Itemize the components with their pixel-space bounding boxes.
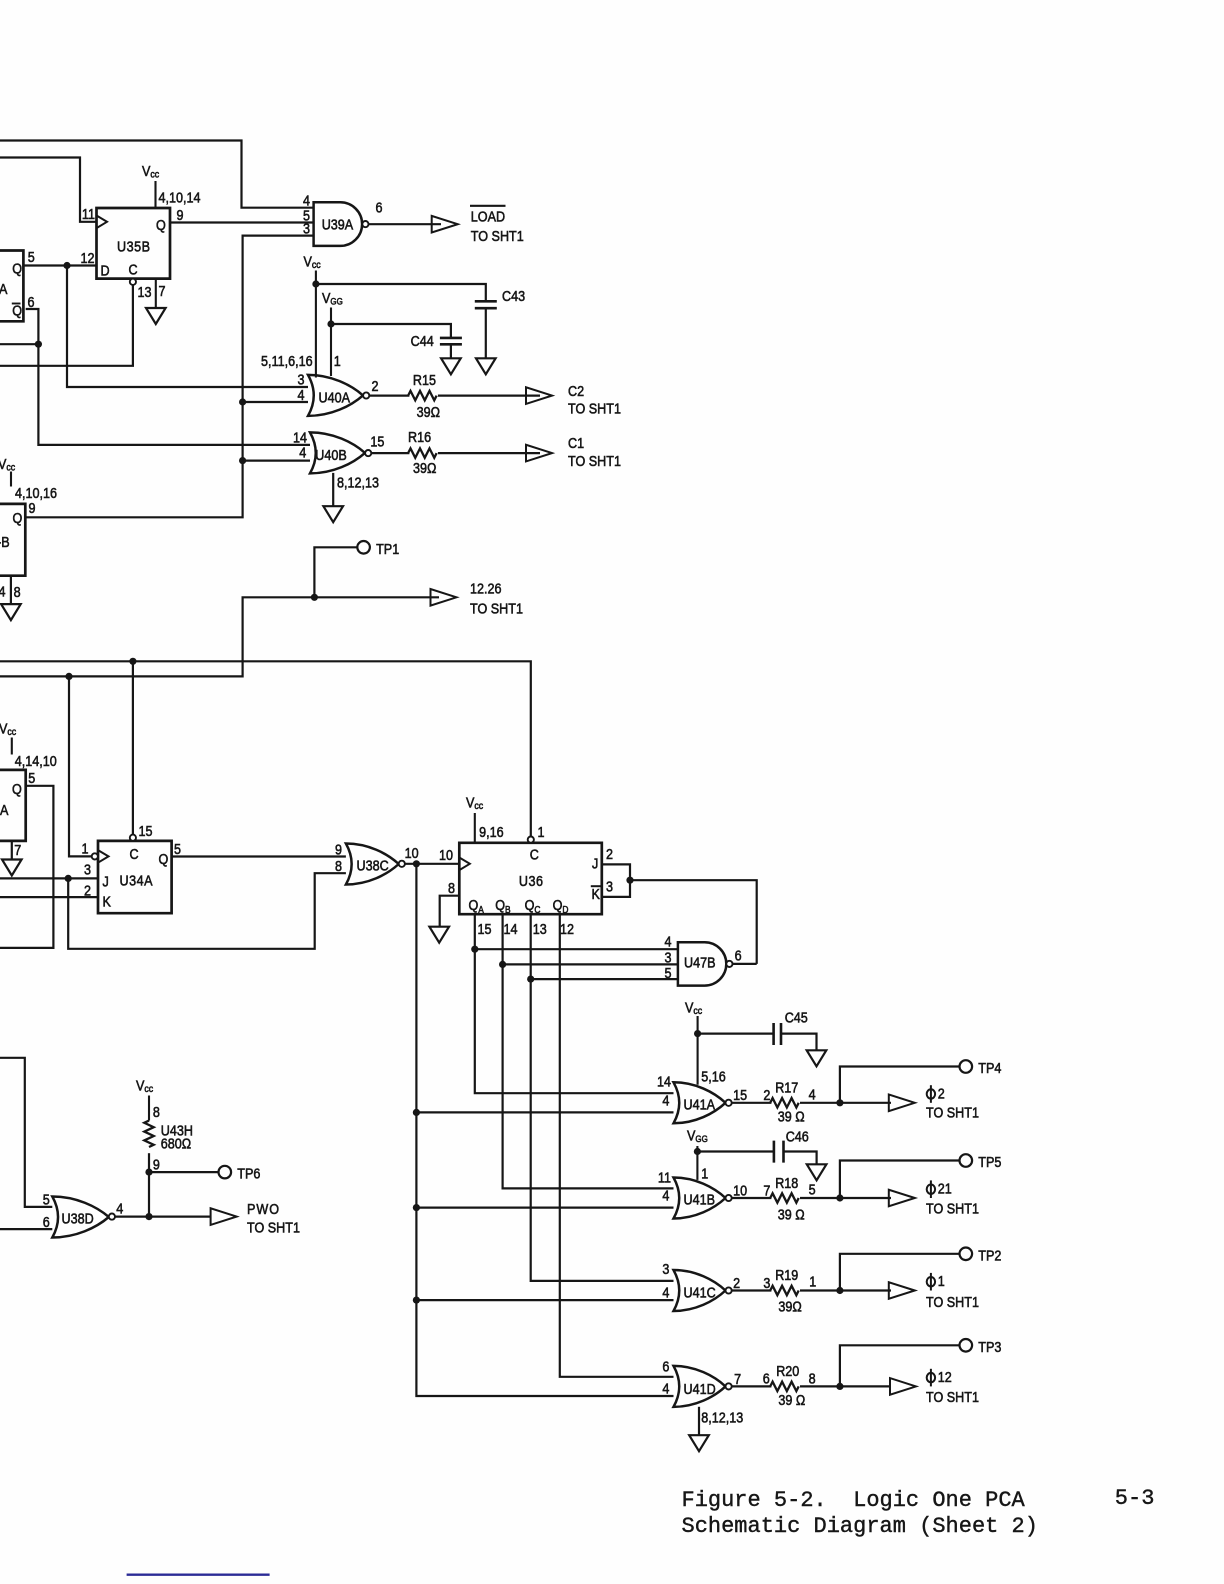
U38C output bubble <box>399 861 405 867</box>
U40A output bubble <box>363 392 369 398</box>
svg-text:C45: C45 <box>785 1008 808 1025</box>
svg-text:4: 4 <box>662 1283 669 1300</box>
svg-text:C: C <box>129 260 138 277</box>
U41D body <box>674 1366 726 1407</box>
svg-text:12: 12 <box>938 1368 952 1385</box>
ground C45 <box>807 1050 827 1066</box>
svg-text:U36: U36 <box>519 872 544 889</box>
svg-text:4: 4 <box>664 932 671 949</box>
wire to U40A pin 4 <box>243 401 308 403</box>
junction phi12 TP3 <box>836 1383 843 1390</box>
svg-text:U47B: U47B <box>684 953 716 970</box>
junction VGG C46 <box>694 1148 701 1155</box>
svg-text:14: 14 <box>657 1072 671 1089</box>
svg-text:TO SHT1: TO SHT1 <box>470 600 523 617</box>
Vcc label U43H <box>136 1076 153 1120</box>
svg-text:C44: C44 <box>411 332 434 349</box>
svg-text:39 Ω: 39 Ω <box>778 1205 805 1222</box>
svg-text:13: 13 <box>138 283 152 300</box>
wire to U34A pin 1 <box>69 676 92 856</box>
junction U40B pin 4 <box>239 457 246 464</box>
svg-text:12: 12 <box>560 920 574 937</box>
svg-text:4: 4 <box>662 1379 669 1396</box>
capacitor C44 <box>440 338 462 344</box>
svg-text:A: A <box>0 801 9 818</box>
svg-text:5: 5 <box>43 1190 50 1207</box>
svg-text:6: 6 <box>43 1213 50 1230</box>
svg-text:39 Ω: 39 Ω <box>778 1107 805 1124</box>
svg-text:TP6: TP6 <box>237 1165 260 1182</box>
wire U40A output to R15 <box>370 395 410 397</box>
svg-text:C46: C46 <box>786 1127 809 1144</box>
wire R16 to C1 arrow <box>438 452 540 454</box>
U35B pin 13 bubble <box>130 279 136 285</box>
svg-text:TO SHT1: TO SHT1 <box>926 1293 979 1310</box>
svg-text:5: 5 <box>174 840 181 857</box>
wire VGG to C46 <box>697 1150 774 1152</box>
blue pen mark bottom left <box>127 1573 270 1575</box>
resistor R19 <box>770 1266 802 1315</box>
caption figure title <box>682 1488 1038 1539</box>
label phi2 <box>926 1084 979 1121</box>
svg-text:4,10,14: 4,10,14 <box>159 188 201 205</box>
svg-text:9: 9 <box>29 499 36 516</box>
svg-text:10: 10 <box>733 1181 747 1198</box>
U47B output bubble <box>726 961 732 967</box>
wire C45 to ground <box>781 1034 817 1050</box>
U34A pin 15 bubble <box>130 835 136 841</box>
U40B output bubble <box>365 450 371 456</box>
svg-text:4,10,16: 4,10,16 <box>15 484 57 501</box>
U40A body <box>308 375 363 416</box>
svg-text:8: 8 <box>448 879 455 896</box>
svg-text:4: 4 <box>662 1091 669 1108</box>
svg-text:TP5: TP5 <box>978 1153 1001 1170</box>
svg-text:U34A: U34A <box>120 871 154 888</box>
svg-text:2: 2 <box>763 1086 770 1103</box>
svg-text:2: 2 <box>938 1084 945 1101</box>
wire C46 to ground <box>784 1152 817 1164</box>
wire to U40B pin 4 <box>243 460 310 462</box>
wire from left to Qbar net <box>0 343 38 345</box>
wire net A to U36 pin 1 <box>0 661 531 836</box>
arrow PWO to sheet 1 <box>211 1208 237 1225</box>
flip-flop B (partial) <box>0 504 25 576</box>
wire QA to U41A pin 14 <box>475 914 674 1093</box>
svg-text:1: 1 <box>538 823 545 840</box>
junction U41B pin 4 <box>413 1204 420 1211</box>
junction U40A pin 4 <box>239 398 246 405</box>
wire U40B output to R16 <box>371 452 409 454</box>
svg-text:39Ω: 39Ω <box>413 459 436 476</box>
test point TP1 <box>357 540 399 557</box>
wire FF A Qbar to U40B pin 14 <box>26 309 310 445</box>
NOR gate U38D <box>52 1197 109 1238</box>
svg-text:1: 1 <box>938 1272 945 1289</box>
svg-text:R20: R20 <box>776 1362 799 1379</box>
wire U36 pin 8 to ground <box>440 896 460 927</box>
wire QC to U41C pin 3 <box>531 914 674 1281</box>
svg-text:Q: Q <box>156 216 166 233</box>
svg-text:TO SHT1: TO SHT1 <box>568 452 621 469</box>
wire U43H to PWO net <box>148 1153 150 1216</box>
svg-text:7: 7 <box>734 1370 741 1387</box>
svg-text:4,14,10: 4,14,10 <box>15 752 57 769</box>
svg-text:11: 11 <box>82 205 95 222</box>
NOR gate U38C <box>346 844 399 885</box>
svg-text:7: 7 <box>763 1181 770 1198</box>
svg-text:6: 6 <box>376 198 383 215</box>
svg-text:9: 9 <box>153 1155 160 1172</box>
svg-text:6: 6 <box>662 1357 669 1374</box>
svg-text:9: 9 <box>177 206 184 223</box>
svg-text:R15: R15 <box>413 371 436 388</box>
wire U38C output to U36 clock <box>405 863 459 865</box>
svg-text:5: 5 <box>28 769 35 786</box>
arrow phi21 to sheet 1 <box>889 1190 915 1207</box>
wire U41C output to R19 <box>732 1289 772 1291</box>
svg-text:TP1: TP1 <box>376 540 399 557</box>
arrow 12.26 to sheet 1 <box>431 589 457 606</box>
U39A output bubble <box>362 221 368 227</box>
svg-text:7: 7 <box>14 841 21 858</box>
U40B body <box>310 432 365 473</box>
svg-text:U41B: U41B <box>684 1190 716 1207</box>
svg-text:R17: R17 <box>775 1078 798 1095</box>
wire to TP3 <box>840 1345 960 1386</box>
resistor R15 <box>408 371 440 420</box>
ground FF B <box>1 604 21 620</box>
svg-text:8,12,13: 8,12,13 <box>337 474 379 491</box>
wire VGG to C44 <box>331 324 451 338</box>
svg-text:TP3: TP3 <box>978 1338 1001 1355</box>
wire U38D output <box>115 1215 211 1217</box>
svg-text:21: 21 <box>938 1179 952 1196</box>
label phi21 <box>926 1179 979 1216</box>
svg-text:3: 3 <box>662 1260 669 1277</box>
svg-text:U38D: U38D <box>62 1209 94 1226</box>
NOR gate U41D <box>674 1366 726 1407</box>
svg-text:15: 15 <box>733 1086 747 1103</box>
wire U35B Q to U39A pin 5 <box>170 221 314 223</box>
junction phi2 TP4 <box>836 1099 843 1106</box>
svg-text:8: 8 <box>14 583 21 600</box>
svg-text:10: 10 <box>405 844 419 861</box>
svg-text:9,16: 9,16 <box>479 823 504 840</box>
svg-text:12: 12 <box>80 249 94 266</box>
U38D body <box>52 1197 109 1238</box>
wire QA to U47B pin 4 <box>475 948 678 950</box>
arrow phi1 to sheet 1 <box>889 1282 915 1299</box>
label PWO <box>247 1200 300 1236</box>
wire U35B pin 7 to ground <box>155 279 157 308</box>
svg-text:4: 4 <box>0 582 6 599</box>
label 12.26 <box>470 579 523 617</box>
VGG label <box>322 289 343 376</box>
test point TP2 <box>960 1246 1002 1263</box>
wire to U41B pin 4 <box>416 1206 673 1208</box>
wire J K tie to U47B output <box>630 880 757 964</box>
svg-text:10: 10 <box>439 846 453 863</box>
svg-text:U41A: U41A <box>684 1095 716 1112</box>
svg-text:1: 1 <box>81 839 88 856</box>
junction Qbar net <box>35 341 42 348</box>
Vcc label FF B <box>0 455 15 487</box>
wire to TP6 <box>149 1171 219 1173</box>
svg-text:J: J <box>103 872 109 889</box>
wire R15 to C2 arrow <box>438 395 540 397</box>
svg-text:R19: R19 <box>775 1266 798 1283</box>
test point TP3 <box>960 1338 1002 1355</box>
wire TP1 tail <box>314 547 357 597</box>
wire R20 to phi12 arrow <box>800 1385 891 1387</box>
junction U41A pin 4 <box>413 1109 420 1116</box>
wire to U41C pin 4 <box>416 1299 673 1301</box>
svg-text:6: 6 <box>735 946 742 963</box>
svg-text:C43: C43 <box>502 287 525 304</box>
junction D input <box>63 262 70 269</box>
arrow C2 to sheet 1 <box>526 387 552 404</box>
svg-text:5: 5 <box>809 1180 816 1197</box>
svg-text:A: A <box>0 280 8 297</box>
svg-text:K: K <box>103 892 112 909</box>
svg-text:R18: R18 <box>775 1174 798 1191</box>
NOR gate U41B <box>674 1178 726 1219</box>
svg-text:U35B: U35B <box>117 237 151 254</box>
ground U41D <box>689 1435 709 1451</box>
resistor R16 <box>408 428 437 476</box>
svg-text:K: K <box>592 885 601 902</box>
junction phi1 TP2 <box>836 1287 843 1294</box>
svg-text:C1: C1 <box>568 434 584 451</box>
wire R17 to phi2 arrow <box>800 1102 891 1104</box>
svg-text:Figure 5-2. Logic One PCA: Figure 5-2. Logic One PCA <box>682 1488 1026 1513</box>
wire U47B output <box>733 963 757 965</box>
svg-text:2: 2 <box>372 377 379 394</box>
junction VGG net <box>327 320 334 327</box>
ground C44 <box>441 358 461 374</box>
junction QA <box>471 946 478 953</box>
svg-text:14: 14 <box>504 920 518 937</box>
svg-text:PWO: PWO <box>247 1200 280 1217</box>
U34A pin 1 bubble <box>92 853 98 859</box>
svg-text:TO SHT1: TO SHT1 <box>247 1218 300 1235</box>
resistor U43H 680 ohm <box>144 1121 193 1152</box>
svg-text:11: 11 <box>658 1168 671 1185</box>
svg-text:8: 8 <box>335 857 342 874</box>
svg-text:5,16: 5,16 <box>701 1067 726 1084</box>
svg-text:7: 7 <box>159 282 166 299</box>
junction phi21 TP5 <box>836 1194 843 1201</box>
wire clock net to U35B pin 11 <box>0 158 97 222</box>
Vcc label U36 <box>466 793 483 842</box>
wire U39A pin 3 net to FF B Q <box>26 236 314 518</box>
svg-text:5-3: 5-3 <box>1115 1486 1155 1511</box>
svg-text:C: C <box>130 845 139 862</box>
wire to TP2 <box>840 1254 960 1291</box>
flip-flop U34A <box>98 841 172 913</box>
ground C46 <box>807 1164 827 1180</box>
junction U41C pin 4 <box>413 1297 420 1304</box>
Vcc label U40 area <box>304 252 321 377</box>
svg-text:U39A: U39A <box>322 215 354 232</box>
U47B body <box>678 942 726 985</box>
wire QB to U41B pin 11 <box>503 914 674 1188</box>
svg-text:3: 3 <box>606 877 613 894</box>
wire R19 to phi1 arrow <box>800 1289 891 1291</box>
label phi12 <box>926 1368 979 1405</box>
U41B body <box>674 1178 726 1219</box>
wire Vcc to C43 <box>316 284 486 301</box>
U41C output bubble <box>726 1287 732 1293</box>
capacitor C43 <box>475 301 497 308</box>
svg-text:4: 4 <box>809 1085 816 1102</box>
wire U41D output to R20 <box>732 1385 772 1387</box>
svg-text:1: 1 <box>701 1164 708 1181</box>
svg-text:5: 5 <box>28 248 35 265</box>
VGG label U41B <box>687 1126 708 1179</box>
svg-text:TO SHT1: TO SHT1 <box>471 227 524 244</box>
svg-text:Q: Q <box>13 509 23 526</box>
junction net B to U34A pin 1 <box>65 673 72 680</box>
resistor R20 <box>770 1362 805 1408</box>
junction net A to U34A pin 15 <box>129 658 136 665</box>
svg-text:J: J <box>592 854 598 871</box>
svg-text:4: 4 <box>116 1199 123 1216</box>
wire U41B output to R18 <box>732 1197 772 1199</box>
wire QC to U47B pin 5 <box>531 978 678 980</box>
NOR gate U40A <box>308 375 363 416</box>
junction U38C output <box>413 860 420 867</box>
svg-text:TO SHT1: TO SHT1 <box>926 1199 979 1216</box>
resistor R17 <box>770 1078 804 1124</box>
wire U41A output to R17 <box>732 1102 772 1104</box>
wire to U38D pin 5 <box>0 1058 52 1207</box>
resistor R18 <box>770 1174 804 1223</box>
svg-text:U41D: U41D <box>684 1380 716 1397</box>
svg-text:12.26: 12.26 <box>470 579 502 596</box>
svg-text:9: 9 <box>335 840 342 857</box>
svg-text:39Ω: 39Ω <box>417 403 440 420</box>
arrow phi2 to sheet 1 <box>889 1095 915 1112</box>
wire FF A2 Q to left <box>0 786 53 948</box>
svg-text:C2: C2 <box>568 382 584 399</box>
svg-text:15: 15 <box>370 432 384 449</box>
wire U39A output <box>369 223 441 225</box>
wire to TP4 <box>840 1067 960 1103</box>
svg-text:D: D <box>101 261 110 278</box>
label LOAD with overline <box>470 206 524 244</box>
svg-text:TO SHT1: TO SHT1 <box>926 1388 979 1405</box>
arrow C1 to sheet 1 <box>526 445 552 462</box>
test point TP6 <box>219 1165 261 1182</box>
ground U36 <box>429 927 449 943</box>
svg-text:2: 2 <box>606 845 613 862</box>
U36 pin 1 bubble <box>528 837 534 843</box>
wire U40B to ground <box>332 473 334 506</box>
svg-text:1: 1 <box>809 1272 816 1289</box>
wire Vcc to C45 <box>698 1032 774 1034</box>
junction Vcc C45 <box>694 1030 701 1037</box>
U41A body <box>674 1082 726 1123</box>
svg-text:4: 4 <box>297 386 304 403</box>
svg-text:4: 4 <box>662 1186 669 1203</box>
label C1 <box>568 434 621 469</box>
U39A body <box>314 202 363 246</box>
wire U34A Q to U38C pin 9 <box>172 855 346 857</box>
wire J net to U38C pin 8 <box>68 873 346 949</box>
U41C body <box>674 1270 726 1311</box>
wire FF B to ground <box>10 576 12 604</box>
label phi1 <box>926 1272 979 1310</box>
svg-text:39Ω: 39Ω <box>778 1297 801 1314</box>
svg-text:13: 13 <box>533 920 547 937</box>
capacitor C46 <box>774 1141 784 1163</box>
svg-text:TP2: TP2 <box>978 1246 1001 1263</box>
wire QD to U41D pin 6 <box>560 914 674 1377</box>
junction QB <box>499 961 506 968</box>
test point TP5 <box>960 1153 1002 1170</box>
wire U36 J K tie <box>602 864 630 897</box>
label C2 <box>568 382 621 417</box>
wire node to U40A pin 3 <box>67 266 308 388</box>
svg-text:U41C: U41C <box>684 1283 716 1300</box>
svg-text:TP4: TP4 <box>978 1059 1001 1076</box>
wire R18 to phi21 arrow <box>800 1197 891 1199</box>
counter U36 <box>459 843 602 915</box>
junction J net <box>65 875 72 882</box>
svg-text:U40A: U40A <box>319 388 351 405</box>
svg-text:680Ω: 680Ω <box>161 1134 191 1151</box>
svg-text:C: C <box>530 845 539 862</box>
wire FF A Q to U35B D <box>23 264 96 266</box>
svg-text:Q: Q <box>12 259 22 276</box>
wire J input <box>0 877 98 879</box>
svg-text:1: 1 <box>334 352 341 369</box>
NAND gate U47B <box>678 942 726 985</box>
NOR gate U40B <box>310 432 365 473</box>
svg-text:Q: Q <box>12 780 22 797</box>
svg-text:8,12,13: 8,12,13 <box>701 1408 743 1425</box>
wire to U41A pin 4 <box>416 1111 673 1113</box>
wire U38C output to U41 pin 4 bus <box>416 864 673 1396</box>
junction QC <box>527 976 534 983</box>
ground U35B pin 7 <box>146 308 166 324</box>
wire to TP5 <box>840 1161 960 1199</box>
wire to U34A pin 15 <box>132 661 134 834</box>
wire FF A2 to ground <box>11 841 13 859</box>
arrow LOAD to sheet 1 <box>432 216 458 233</box>
flip-flop A (partial) <box>0 251 23 322</box>
svg-text:6: 6 <box>763 1369 770 1386</box>
Vcc label C45 area <box>685 998 702 1084</box>
svg-text:LOAD: LOAD <box>471 207 505 224</box>
junction Vcc net <box>312 280 319 287</box>
NAND gate U39A <box>314 202 363 246</box>
NOR gate U41A <box>674 1082 726 1123</box>
svg-text:4: 4 <box>299 443 306 460</box>
ground U40B <box>323 506 343 522</box>
svg-text:3: 3 <box>84 860 91 877</box>
wire C input net to U35B pin 13 <box>0 285 133 366</box>
svg-text:U40B: U40B <box>315 446 347 463</box>
arrow phi12 to sheet 1 <box>890 1378 916 1395</box>
svg-text:R16: R16 <box>408 428 431 445</box>
U38D output bubble <box>109 1214 115 1220</box>
NOR gate U41C <box>674 1270 726 1311</box>
U41D output bubble <box>726 1383 732 1389</box>
junction TP6 <box>145 1169 152 1176</box>
